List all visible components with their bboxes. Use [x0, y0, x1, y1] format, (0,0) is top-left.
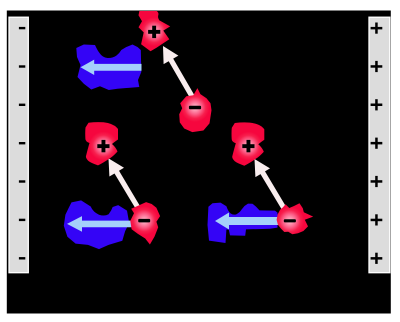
minus sign on charge 2 [138, 219, 150, 223]
white force arrow group 1 (minus charge attracted toward plus charge) [163, 46, 195, 99]
left negative plate [9, 17, 28, 273]
red negative charge blob 2 [130, 202, 160, 244]
blue electron blob 3 (stretched) [208, 203, 278, 243]
red positive charge blob 2 [85, 122, 118, 165]
light blue velocity arrow 2 [67, 216, 136, 232]
white force arrow group 2 [109, 158, 143, 212]
red negative charge blob 3 [277, 203, 314, 234]
blue electron blob 1 [76, 45, 141, 91]
blue electron blob 2 [64, 200, 129, 249]
minus sign on charge 3 [284, 219, 296, 222]
red positive charge blob 1 (top) [139, 11, 171, 51]
red positive charge blob 3 [232, 122, 265, 165]
light blue velocity arrow 1 [81, 60, 142, 75]
minus sign on charge 1 [189, 106, 201, 109]
right positive plate [369, 17, 390, 273]
plus signs on right plate [371, 23, 383, 264]
plus sign on charge 3 [242, 140, 254, 152]
white force arrow group 3 [255, 159, 289, 213]
plus sign on charge 1 [148, 26, 160, 38]
plus sign on charge 2 [97, 140, 109, 152]
red negative charge blob 1 [179, 88, 211, 132]
minus signs on left plate [19, 27, 25, 260]
light blue velocity arrow 3 [215, 213, 282, 230]
